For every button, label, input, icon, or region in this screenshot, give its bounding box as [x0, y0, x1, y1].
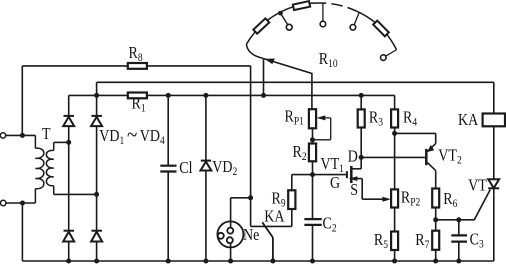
node VD2 bottom [203, 259, 208, 264]
node R7 bottom [433, 259, 438, 264]
potentiometer RP1 [309, 109, 316, 128]
svg-text:D: D [348, 147, 358, 166]
MOSFET VT1 [346, 171, 348, 178]
resistor box on arc 2 [293, 1, 310, 10]
node input-2 / left rail [20, 201, 25, 206]
KA contact branch [251, 198, 292, 227]
wire gate bus [292, 174, 346, 176]
thyristor VT [488, 179, 499, 188]
node R4 bottom / VT2 emitter [392, 131, 397, 136]
svg-text:Cl: Cl [179, 159, 193, 178]
svg-text:~: ~ [127, 121, 137, 147]
wire bottom bus [22, 260, 493, 262]
wire bridge right column [96, 82, 98, 261]
svg-text:R10: R10 [319, 50, 338, 71]
node R5 bottom [392, 259, 397, 264]
node R3 top [359, 93, 364, 98]
node VD2 top [203, 93, 208, 98]
diode VD2 (shunt stabilizer) [205, 95, 207, 261]
svg-text:T: T [42, 125, 51, 144]
resistor R9 [291, 175, 293, 227]
resistor R1 [128, 93, 147, 99]
wire lower rail [69, 94, 395, 96]
wire bridge left column [68, 95, 70, 261]
diode VD3 (bridge bottom-left) [63, 231, 74, 242]
svg-text:G: G [330, 174, 340, 193]
wire Ne branch [231, 198, 251, 261]
svg-text:R5: R5 [374, 231, 388, 252]
KA contact blade [262, 222, 273, 261]
svg-text:R8: R8 [129, 44, 143, 65]
wire R6/C3 node to thyristor gate [436, 190, 491, 220]
svg-text:R6: R6 [443, 190, 457, 211]
svg-text:R3: R3 [369, 108, 383, 129]
wire top-rail drop to Ne/KA [250, 66, 252, 198]
wire left rail lower [21, 203, 23, 261]
resistor R8 [128, 63, 147, 69]
node D drain bus [359, 155, 364, 160]
node KA contact bottom [270, 259, 275, 264]
node secondary-bottom / bridge right [94, 192, 99, 197]
wire secondary top lead [54, 141, 69, 143]
svg-text:VT1: VT1 [321, 155, 344, 176]
input terminal 1 [0, 133, 5, 138]
node C1 top [166, 93, 171, 98]
resistor R5 [394, 208, 396, 262]
resistor R4 [394, 95, 396, 189]
node C1 bottom [166, 259, 171, 264]
resistor R6 [432, 189, 439, 208]
wire left rail upper [21, 66, 23, 135]
tap 4 [386, 50, 397, 56]
resistor box on arc 3 [373, 21, 389, 37]
wire input line 2 [6, 202, 36, 204]
wire middle rail [97, 81, 494, 83]
svg-text:KA: KA [458, 111, 479, 130]
neon lamp Ne [217, 221, 243, 247]
wire arc left end to rail [263, 59, 265, 96]
rheostat R10 arc [247, 3, 397, 59]
svg-text:VD1: VD1 [99, 127, 124, 148]
node secondary-top / bridge left [66, 140, 71, 145]
node bridge+ / lower rail [94, 93, 99, 98]
svg-text:S: S [350, 181, 358, 200]
diode VD1 (bridge top-left) [63, 116, 74, 126]
svg-text:C2: C2 [323, 214, 337, 235]
wire top rail [22, 65, 250, 67]
node Ne/KA branch [248, 195, 253, 200]
node R6 bottom [433, 217, 438, 222]
input terminal 2 [1, 200, 6, 205]
svg-text:R2: R2 [293, 143, 307, 164]
tap 2 [322, 3, 324, 21]
node C3 bottom [456, 259, 461, 264]
node bridge left / bottom bus [66, 259, 71, 264]
diode VD2 (bridge top-right) [91, 116, 102, 126]
node R10 end / lower rail [261, 93, 266, 98]
resistor R3 [360, 95, 362, 157]
potentiometer RP2 [391, 189, 398, 207]
svg-text:VD2: VD2 [212, 158, 237, 179]
svg-text:VT: VT [468, 176, 487, 195]
resistor box on arc 1 [253, 18, 269, 33]
transistor VT2 [425, 149, 428, 165]
svg-text:Ne: Ne [243, 226, 259, 245]
node Ne bottom [228, 259, 233, 264]
svg-text:R9: R9 [272, 189, 286, 210]
transformer T [35, 135, 53, 203]
svg-text:KA: KA [264, 207, 285, 226]
resistor R7 [432, 231, 439, 250]
svg-text:VT2: VT2 [438, 146, 461, 167]
svg-text:VD4: VD4 [140, 127, 166, 148]
resistor R2 [312, 128, 314, 174]
node RP1 wiper / R2 top [310, 137, 315, 142]
wire drain bus [361, 156, 425, 158]
wiper of R10 with arrow [264, 59, 312, 110]
svg-text:R7: R7 [415, 231, 429, 252]
svg-text:C3: C3 [470, 230, 484, 251]
tap 1 selected dot [278, 11, 283, 16]
svg-text:R4: R4 [403, 108, 418, 129]
node input-1 / left rail [20, 133, 25, 138]
wire secondary bottom lead [54, 193, 97, 195]
node C3 top [456, 217, 461, 222]
diode VD4 (bridge bottom-right) [91, 231, 102, 242]
node bridge right / bottom bus [94, 259, 99, 264]
capacitor C1 [167, 95, 169, 261]
svg-text:RP1: RP1 [285, 107, 304, 128]
wire input line 1 [6, 134, 36, 136]
capacitor C3 [458, 220, 460, 261]
node gate bus / C2 top [310, 172, 315, 177]
svg-text:RP2: RP2 [401, 188, 420, 209]
node C2 bottom [310, 259, 315, 264]
relay coil KA [493, 82, 495, 179]
tap 3 [354, 12, 359, 25]
capacitor C2 [312, 175, 314, 261]
